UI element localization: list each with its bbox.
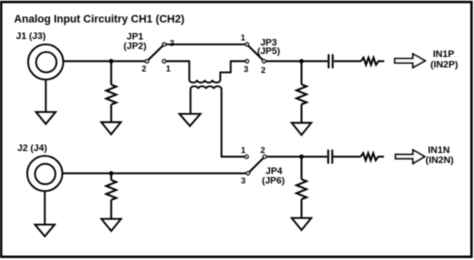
resistor R-series-top [361,58,384,65]
wire JP4 pin2 to node [267,156,302,158]
junction node top-right [299,59,303,63]
svg-text:3: 3 [244,64,249,74]
junction node top-left [109,59,113,63]
connector J1 (BNC) [28,44,63,79]
transformer T1 primary winding [189,61,245,82]
wire JP1 pin3 to JP3 pin1 [166,43,245,45]
output arrow IN1N [396,150,425,163]
wire J2 to JP4 pin3 [62,172,246,174]
JP1 pin 2 [145,60,148,63]
svg-text:1: 1 [241,145,246,155]
ground at transformer secondary [179,114,200,126]
JP1 switch lever 2-3 [147,44,164,61]
JP4 switch lever 2-3 [248,157,265,174]
JP3 pin 2 [262,60,265,63]
ground below R-bottomright [292,218,312,230]
output arrow IN1P [395,54,425,68]
wire C-top to R-series-top [334,60,361,62]
svg-text:(JP2): (JP2) [124,40,147,51]
JP4 pin 3 [246,172,249,175]
svg-text:(IN2P): (IN2P) [430,59,458,70]
ground at J1 [36,80,56,124]
svg-text:J1 (J3): J1 (J3) [16,30,46,41]
wire J1 to JP1 pin2 [63,60,145,62]
svg-text:1: 1 [166,64,171,74]
svg-text:J2 (J4): J2 (J4) [17,142,47,153]
JP1 pin 1 [163,60,166,63]
wire JP1 pin1 to transformer [166,60,190,62]
junction node bottom-left [109,171,113,175]
svg-text:3: 3 [170,38,175,48]
svg-text:1: 1 [241,33,246,43]
connector J2 (BNC) [27,156,62,191]
svg-text:Analog Input Circuitry CH1 (CH: Analog Input Circuitry CH1 (CH2) [14,14,185,26]
transformer T1 secondary winding [191,86,245,156]
wire JP3 pin2 to node [266,60,302,62]
ground below R-bottomleft [101,219,121,231]
svg-text:(JP6): (JP6) [262,175,285,186]
resistor R-series-bottom [361,153,384,160]
JP4 pin 1 [245,155,248,158]
JP3 pin 1 [245,43,248,46]
JP1 pin 3 [163,43,166,46]
resistor R-bottomright (to ground) [297,157,307,218]
svg-text:2: 2 [260,145,265,155]
capacitor C-top [329,54,333,68]
svg-text:2: 2 [261,65,266,75]
JP4 pin 2 [263,155,266,158]
svg-text:(IN2N): (IN2N) [426,155,454,166]
wire node to C-top [302,60,328,62]
capacitor C-bottom [328,150,332,164]
JP3 pin 3 [245,60,248,63]
resistor R-topleft (to ground) [106,61,116,122]
JP3 switch lever 1-2 [247,44,264,61]
ground at J2 [35,191,55,236]
svg-text:(JP5): (JP5) [257,45,280,56]
resistor R-bottomleft (to ground) [106,173,116,219]
resistor R-topright (to ground) [297,61,307,123]
ground below R-topright [292,123,312,135]
junction node bottom-right [299,155,303,159]
svg-text:3: 3 [241,175,246,185]
ground below R-topleft [101,122,121,134]
svg-text:2: 2 [142,64,147,74]
wire C-bottom to R-series-bottom [333,156,360,158]
wire node to C-bottom [302,156,328,158]
